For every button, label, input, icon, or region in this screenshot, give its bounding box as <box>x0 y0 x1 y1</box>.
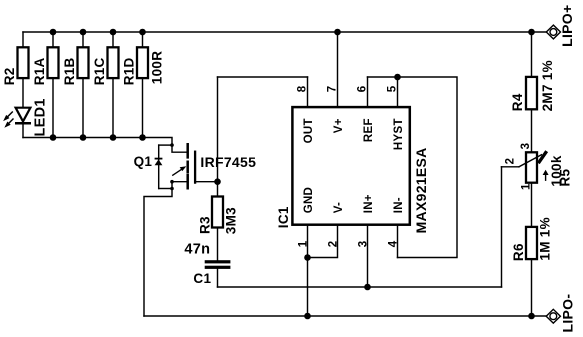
svg-text:47n: 47n <box>184 241 210 257</box>
svg-text:7: 7 <box>326 86 338 93</box>
op-amp IC1 box <box>292 107 409 225</box>
svg-text:C1: C1 <box>193 271 211 286</box>
wire IC1 pin 4 IN- <box>397 226 399 258</box>
junction Q1 drain node <box>170 143 174 147</box>
LED1 symbol <box>15 108 31 125</box>
svg-text:REF: REF <box>363 118 375 142</box>
wire Q1 source stub <box>172 181 187 183</box>
resistor R2 <box>18 47 29 78</box>
junction HYST pin 5 <box>394 74 401 81</box>
label LIPO+ <box>559 5 575 47</box>
pin label REF <box>363 118 375 142</box>
junction gate R3 OUT node <box>214 178 221 185</box>
svg-text:HYST: HYST <box>393 118 405 150</box>
wire REF HYST net <box>368 77 458 258</box>
junction GND at bottom rail <box>304 313 311 320</box>
svg-text:R5: R5 <box>557 168 572 186</box>
pin number 5 <box>386 85 398 92</box>
wire IC1 pin 5 HYST <box>397 77 399 106</box>
resistor R1D 100R <box>137 47 148 78</box>
label 2M7 1% <box>540 60 555 111</box>
potentiometer R5 wiper arrow <box>519 153 546 167</box>
wire IC1 pin 2 V- <box>308 226 338 258</box>
svg-text:5: 5 <box>386 85 398 92</box>
svg-text:3M3: 3M3 <box>223 207 238 234</box>
pin number 7 <box>326 86 338 93</box>
wire R1A bottom lead <box>52 78 54 138</box>
R5 adjust arrow glyph <box>543 170 549 181</box>
resistor R6 <box>526 227 537 259</box>
resistor R1C <box>108 47 119 78</box>
wire R4 to R5 <box>531 109 533 152</box>
wire R5 wiper lead <box>502 166 520 168</box>
svg-text:6: 6 <box>356 86 368 93</box>
resistor R4 <box>526 77 537 109</box>
svg-text:R1B: R1B <box>62 57 77 85</box>
svg-text:GND: GND <box>303 187 315 213</box>
junction Q1 diode bottom <box>170 187 174 191</box>
svg-text:8: 8 <box>296 85 308 92</box>
svg-text:IRF7455: IRF7455 <box>200 154 256 170</box>
label R4 <box>510 93 525 111</box>
wire IC1 pin 6 REF <box>367 77 369 106</box>
svg-text:OUT: OUT <box>303 118 315 143</box>
wire Q1 drain to body diode top <box>159 144 172 146</box>
svg-text:2: 2 <box>504 158 516 165</box>
resistor R1A <box>48 47 59 78</box>
label 3M3 <box>223 207 238 234</box>
svg-text:IN-: IN- <box>393 197 405 213</box>
wire R1B bottom lead <box>82 78 84 138</box>
junction R1D top <box>139 29 146 36</box>
wire R3 to C1 <box>217 228 219 261</box>
wire R5 to R6 <box>531 183 533 227</box>
pin number 1 <box>297 240 309 247</box>
resistor R3 <box>212 197 223 228</box>
svg-text:V-: V- <box>333 202 345 213</box>
junction R4 at LIPO+ <box>528 29 535 36</box>
svg-text:V+: V+ <box>333 118 345 133</box>
junction IN+ pin 3 <box>364 284 371 291</box>
svg-text:3: 3 <box>520 143 532 150</box>
junction R1A top <box>50 29 57 36</box>
wire R4 top lead <box>531 32 533 77</box>
capacitor C1 plates <box>205 260 231 269</box>
label R1D <box>122 57 137 85</box>
wire R5 wiper vertical <box>501 167 503 287</box>
svg-text:R1A: R1A <box>32 57 47 85</box>
potentiometer R5 body <box>526 152 537 182</box>
pin number 6 <box>356 86 368 93</box>
wire R6 to bottom rail <box>531 259 533 316</box>
label 100R <box>150 51 165 84</box>
wire R1A top lead <box>52 32 54 47</box>
junction R1D bottom <box>139 134 146 141</box>
wire R1B top lead <box>82 32 84 47</box>
pin number 3 <box>357 241 369 248</box>
label R6 <box>511 243 526 261</box>
junction Q1 source stub <box>170 180 174 184</box>
R5 pin number 2 <box>504 158 516 165</box>
pin label HYST <box>393 118 405 150</box>
svg-text:R4: R4 <box>510 93 525 111</box>
transistor Q1 substrate arrow <box>173 166 187 175</box>
svg-text:LIPO+: LIPO+ <box>559 5 575 47</box>
label LED1 <box>33 98 49 136</box>
svg-text:2M7 1%: 2M7 1% <box>540 60 555 111</box>
wire bottom rail LIPO- net <box>144 315 546 317</box>
wire IC1 pin 7 V+ <box>337 32 339 106</box>
wire IC1 pin 3 IN+ <box>367 226 369 287</box>
svg-text:R1D: R1D <box>122 57 137 85</box>
svg-text:1M 1%: 1M 1% <box>537 217 552 261</box>
pin label V- <box>333 202 345 213</box>
pin number 8 <box>296 85 308 92</box>
junction R1C top <box>110 29 117 36</box>
label C1 <box>193 271 211 286</box>
pin label IN+ <box>363 194 375 213</box>
svg-text:R2: R2 <box>2 67 17 85</box>
label 47n <box>184 241 210 257</box>
wire R2 to LED1 <box>22 78 24 108</box>
label R1A <box>32 57 47 85</box>
svg-text:IN+: IN+ <box>363 194 375 213</box>
junction V+ pin 7 on top rail <box>334 29 341 36</box>
LED1 emission arrows <box>4 112 13 127</box>
svg-text:R6: R6 <box>511 243 526 261</box>
wire R1D bottom lead <box>142 78 144 138</box>
wire Q1 body diode branch <box>158 145 160 188</box>
wire IN+ rail <box>218 286 502 288</box>
terminal LIPO- <box>546 309 560 323</box>
wire R1C top lead <box>112 32 114 47</box>
wire OUT net horizontal <box>218 76 308 78</box>
wire LED1 cathode to rail <box>22 124 24 138</box>
svg-text:3: 3 <box>357 241 369 248</box>
label R1C <box>92 57 107 85</box>
svg-text:IC1: IC1 <box>276 206 291 228</box>
R5 pin number 1 <box>520 183 532 190</box>
svg-text:MAX921ESA: MAX921ESA <box>413 147 429 233</box>
pin number 4 <box>387 240 399 247</box>
wire IC1 pin 8 stub <box>307 77 309 106</box>
pin label V+ <box>333 118 345 133</box>
wire C1 bottom <box>217 269 219 287</box>
junction R1A bottom <box>50 134 57 141</box>
wire Q1 gate lead <box>196 181 218 183</box>
R5 pin number 3 <box>520 143 532 150</box>
junction R1B bottom <box>80 134 87 141</box>
pin number 2 <box>327 241 339 248</box>
label R3 <box>197 216 212 234</box>
wire R2 top lead <box>22 32 24 47</box>
label 1M 1% <box>537 217 552 261</box>
label R1B <box>62 57 77 85</box>
junction R1C bottom <box>110 134 117 141</box>
pin label GND <box>303 187 315 213</box>
svg-text:1: 1 <box>520 183 532 190</box>
label R2 <box>2 67 17 85</box>
wire top rail VBAT <box>23 31 546 33</box>
label MAX921ESA <box>413 147 429 233</box>
wire Q1 source down <box>144 182 172 316</box>
resistor R1B <box>78 47 89 78</box>
junction R6 at LIPO- <box>528 313 535 320</box>
transistor Q1 body diode <box>155 158 163 166</box>
label 100k <box>549 155 564 186</box>
junction R1B top <box>80 29 87 36</box>
svg-text:LED1: LED1 <box>33 98 49 136</box>
label IC1 <box>276 206 291 228</box>
label LIPO- <box>560 294 576 333</box>
transistor Q1 gate bar <box>194 152 196 183</box>
terminal LIPO+ <box>546 25 560 39</box>
svg-text:R1C: R1C <box>92 57 107 85</box>
wire OUT net vertical <box>217 77 219 197</box>
pin label IN- <box>393 197 405 213</box>
wire R1C bottom lead <box>112 78 114 138</box>
svg-text:4: 4 <box>387 240 399 247</box>
junction GND V- node <box>304 254 311 261</box>
wire IC1 pin 1 GND <box>307 226 309 316</box>
svg-text:R3: R3 <box>197 216 212 234</box>
svg-text:LIPO-: LIPO- <box>560 294 576 333</box>
transistor Q1 channel bar <box>186 144 189 188</box>
svg-text:100R: 100R <box>150 51 165 84</box>
svg-text:2: 2 <box>327 241 339 248</box>
label Q1 <box>134 154 153 169</box>
svg-text:Q1: Q1 <box>134 154 153 169</box>
wire R1D top lead <box>142 32 144 47</box>
wire mid rail to Q1 drain <box>23 138 187 153</box>
label IRF7455 <box>200 154 256 170</box>
svg-text:1: 1 <box>297 240 309 247</box>
wire Q1 body diode bottom link <box>159 188 172 190</box>
label R5 <box>557 168 572 186</box>
pin label OUT <box>303 118 315 143</box>
